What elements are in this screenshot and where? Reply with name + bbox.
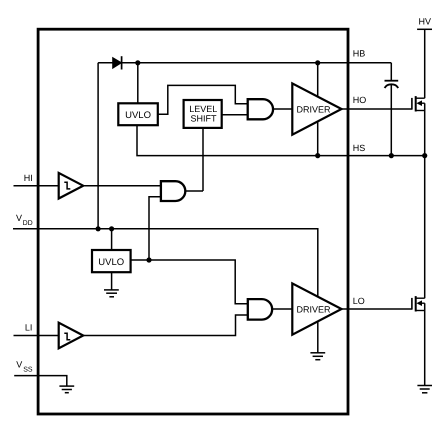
svg-text:DRIVER: DRIVER (297, 304, 332, 314)
svg-text:UVLO: UVLO (98, 257, 124, 268)
svg-text:V: V (16, 360, 22, 370)
svg-text:DD: DD (23, 220, 33, 227)
svg-text:DRIVER: DRIVER (297, 104, 332, 114)
svg-text:LI: LI (25, 322, 33, 332)
svg-text:LEVEL: LEVEL (189, 104, 217, 114)
svg-text:UVLO: UVLO (125, 110, 151, 121)
svg-text:LO: LO (353, 296, 365, 306)
svg-text:HB: HB (353, 49, 366, 59)
svg-text:HS: HS (353, 143, 366, 153)
svg-text:V: V (16, 213, 22, 223)
svg-text:HV: HV (419, 17, 432, 27)
svg-text:HO: HO (353, 95, 367, 105)
svg-text:SHIFT: SHIFT (191, 114, 218, 124)
svg-text:HI: HI (24, 173, 33, 183)
svg-text:SS: SS (23, 367, 33, 374)
